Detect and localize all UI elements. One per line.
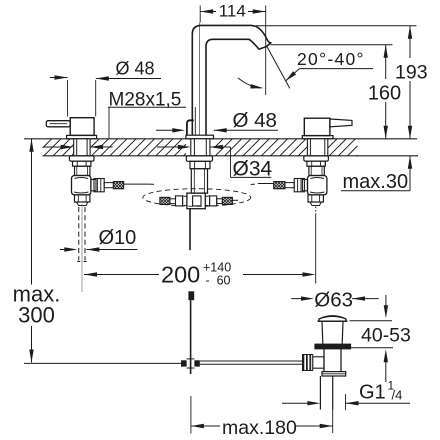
svg-text:300: 300	[18, 303, 55, 328]
svg-text:114: 114	[219, 1, 246, 20]
svg-text:/4: /4	[392, 388, 403, 403]
svg-text:Ø 48: Ø 48	[233, 109, 277, 132]
svg-text:G1: G1	[359, 382, 386, 404]
svg-text:200: 200	[161, 261, 200, 287]
svg-text:160: 160	[368, 83, 401, 105]
svg-text:20°-40°: 20°-40°	[297, 49, 365, 69]
svg-text:Ø 48: Ø 48	[116, 58, 155, 78]
svg-text:max.180: max.180	[222, 417, 297, 439]
svg-text:Ø63: Ø63	[314, 289, 353, 312]
svg-text:max.30: max.30	[343, 171, 409, 193]
svg-text:+140: +140	[203, 261, 231, 275]
svg-text:- 60: - 60	[206, 274, 231, 288]
svg-text:40-53: 40-53	[361, 325, 411, 347]
svg-text:Ø10: Ø10	[99, 227, 137, 249]
svg-text:193: 193	[395, 62, 428, 84]
